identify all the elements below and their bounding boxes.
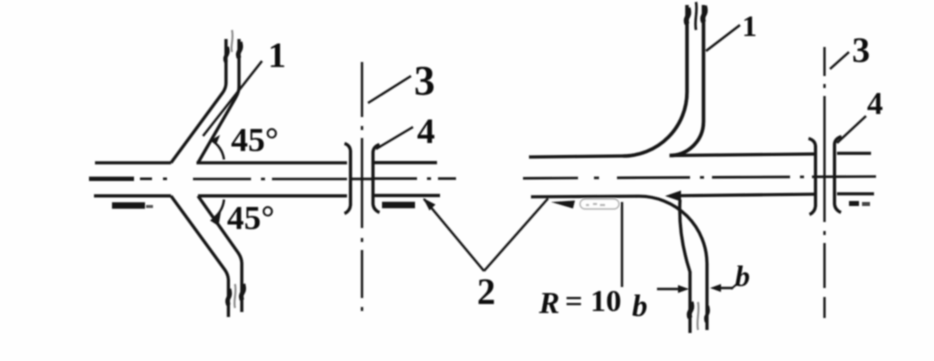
svg-text:2: 2 bbox=[477, 272, 496, 313]
tick from b label to arrow bbox=[731, 284, 737, 289]
break symbol lower radius branch bbox=[689, 302, 708, 330]
wire main duct bottom line right segment (left assembly) bbox=[374, 194, 440, 197]
flow arrowhead on bottom duct line pointing left bbox=[665, 191, 681, 202]
wire main duct top line right segment (left assembly) bbox=[374, 161, 437, 164]
arrowhead on upper angle arc bbox=[211, 135, 220, 145]
wire main duct top line right segment (right assembly) bbox=[837, 152, 871, 155]
label R = 10 b bbox=[538, 283, 648, 323]
wire main duct bottom line middle segment (right assembly) bbox=[681, 194, 814, 196]
smudge marks under duct right of right joint bbox=[849, 201, 859, 206]
svg-text:45°: 45° bbox=[227, 200, 275, 237]
wire main duct top line middle segment (right assembly) bbox=[670, 154, 815, 156]
arrowhead of label-2 right arm bbox=[551, 201, 575, 209]
break symbol upper radius branch bbox=[686, 2, 705, 30]
joint axis vertical dash-dot line (left assembly, item 3) bbox=[361, 62, 363, 311]
branch duct lower outer wall (45-deg wye) bbox=[171, 196, 228, 317]
dimension b right arrow bbox=[714, 287, 733, 289]
leader line for label 3 (left) bbox=[368, 76, 411, 103]
angle dimension arc lower 45deg bbox=[213, 200, 225, 220]
wire main duct bottom line right segment (right assembly) bbox=[837, 192, 874, 195]
leader line for label 1 (left) bbox=[203, 61, 262, 136]
joint axis vertical dash-dot line (right assembly, item 3) bbox=[823, 47, 825, 318]
svg-text:b: b bbox=[632, 288, 648, 323]
svg-text:3: 3 bbox=[852, 30, 870, 70]
smudge mark tail bbox=[146, 205, 153, 208]
radius branch lower inner wall bbox=[680, 200, 690, 334]
leader line for label 1 (right) bbox=[706, 25, 740, 51]
leader V for label 2, left arm bbox=[424, 199, 484, 271]
joint flange right half (right assembly, item 4) bbox=[835, 137, 842, 213]
branch duct lower inner wall (45-deg wye) bbox=[198, 196, 242, 312]
centerline (dash-dot axis, right assembly) bbox=[523, 177, 876, 179]
angle dimension arc upper 45deg bbox=[211, 140, 224, 160]
wire main duct top line middle segment (left assembly) bbox=[197, 161, 348, 164]
branch duct upper outer wall (45-deg wye) bbox=[171, 39, 226, 163]
wire main duct bottom line left segment (right assembly) bbox=[531, 195, 639, 199]
centerline (dash-dot axis, left assembly) bbox=[89, 176, 456, 181]
dimension b left arrow bbox=[657, 288, 683, 290]
radius branch upper inner wall bbox=[670, 5, 704, 156]
svg-text:45°: 45° bbox=[231, 122, 279, 159]
svg-text:4: 4 bbox=[417, 111, 435, 151]
wire main duct bottom line middle segment (left assembly) bbox=[198, 194, 347, 197]
arrowhead on lower angle arc bbox=[210, 212, 221, 227]
joint flange left half (left assembly, item 4) bbox=[345, 144, 351, 214]
svg-text:b: b bbox=[735, 260, 750, 293]
svg-text:3: 3 bbox=[414, 59, 435, 105]
leader V for label 2, right arm bbox=[484, 199, 548, 272]
svg-text:1: 1 bbox=[268, 35, 286, 75]
svg-text:1: 1 bbox=[742, 10, 757, 43]
joint flange right half (left assembly, item 4) bbox=[373, 145, 380, 213]
branch duct upper inner wall (45-deg wye) bbox=[198, 39, 239, 163]
break symbol upper branch bbox=[225, 30, 241, 62]
arrowhead of label-2 left arm bbox=[423, 198, 436, 211]
joint flange left half (right assembly, item 4) bbox=[809, 139, 816, 215]
radius branch lower outer wall bbox=[639, 196, 707, 330]
wire main duct bottom line left segment (left assembly) bbox=[94, 194, 171, 197]
leader line from R=10b text up to branch curve bbox=[621, 202, 623, 287]
wire main duct top line left segment (left assembly) bbox=[95, 161, 171, 164]
svg-text:R: R bbox=[538, 285, 560, 320]
radius branch upper outer wall bbox=[623, 5, 687, 156]
wire main duct top line left segment (right assembly) bbox=[529, 156, 623, 157]
svg-text:= 10: = 10 bbox=[565, 283, 621, 318]
smudge mark under duct at left end bbox=[112, 202, 145, 209]
faint erased oval mark near label-2 right arm bbox=[580, 199, 619, 209]
svg-text:4: 4 bbox=[867, 85, 883, 121]
leader line for label 4 (right) bbox=[837, 116, 866, 143]
leader line for label 3 (right) bbox=[830, 52, 849, 69]
smudge mark under duct right of left joint bbox=[382, 202, 415, 209]
break symbol lower branch bbox=[227, 284, 243, 308]
leader line for label 4 (left) bbox=[376, 127, 413, 149]
